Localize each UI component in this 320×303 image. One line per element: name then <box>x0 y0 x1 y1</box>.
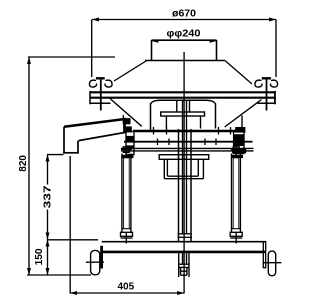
svg-text:ø670: ø670 <box>172 8 196 20</box>
svg-text:405: 405 <box>117 282 134 293</box>
svg-text:337: 337 <box>43 185 54 209</box>
svg-text:150: 150 <box>34 248 45 265</box>
svg-text:820: 820 <box>18 155 29 172</box>
svg-text:φφ240: φφ240 <box>167 29 201 40</box>
